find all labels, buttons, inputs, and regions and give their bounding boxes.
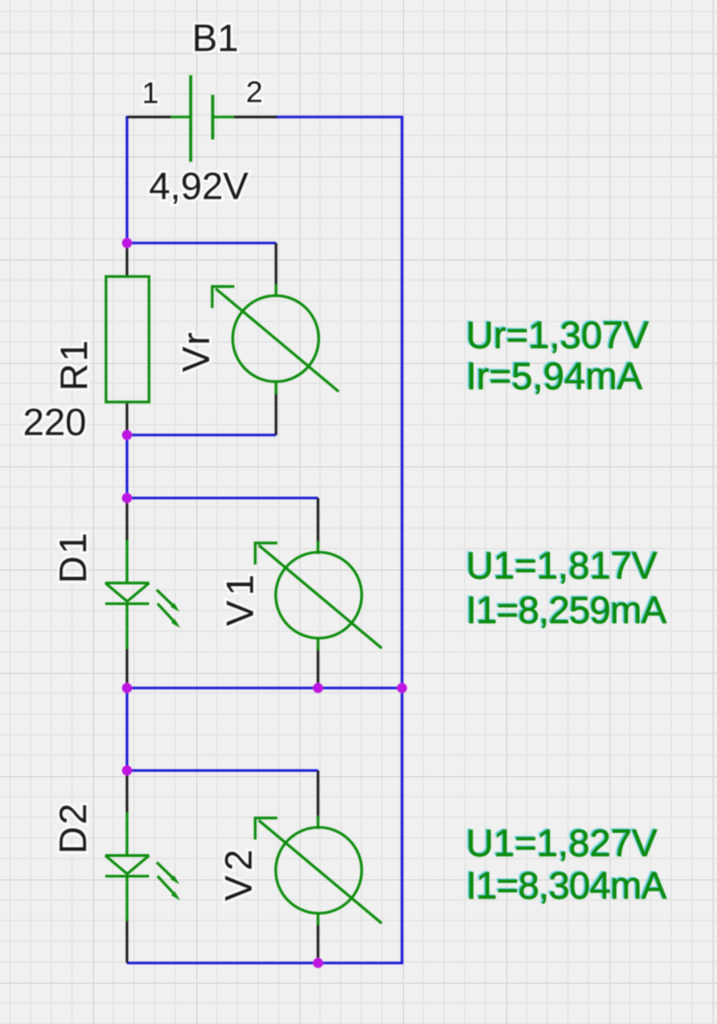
svg-text:220: 220: [23, 402, 86, 444]
svg-text:V1: V1: [220, 570, 262, 626]
svg-text:D1: D1: [53, 531, 95, 584]
svg-text:R1: R1: [54, 338, 96, 391]
svg-text:U1=1,817V: U1=1,817V: [466, 546, 658, 588]
svg-text:V2: V2: [219, 845, 261, 901]
svg-text:1: 1: [142, 77, 159, 110]
svg-text:U1=1,827V: U1=1,827V: [466, 823, 658, 865]
svg-text:4,92V: 4,92V: [149, 166, 249, 208]
svg-text:I1=8,304mA: I1=8,304mA: [466, 866, 667, 908]
svg-text:D2: D2: [53, 801, 95, 854]
svg-text:2: 2: [246, 76, 263, 109]
svg-text:Vr: Vr: [176, 329, 218, 372]
svg-text:I1=8,259mA: I1=8,259mA: [466, 590, 667, 632]
svg-text:Ur=1,307V: Ur=1,307V: [466, 315, 649, 357]
svg-text:Ir=5,94mA: Ir=5,94mA: [466, 356, 643, 398]
svg-text:B1: B1: [192, 18, 238, 60]
